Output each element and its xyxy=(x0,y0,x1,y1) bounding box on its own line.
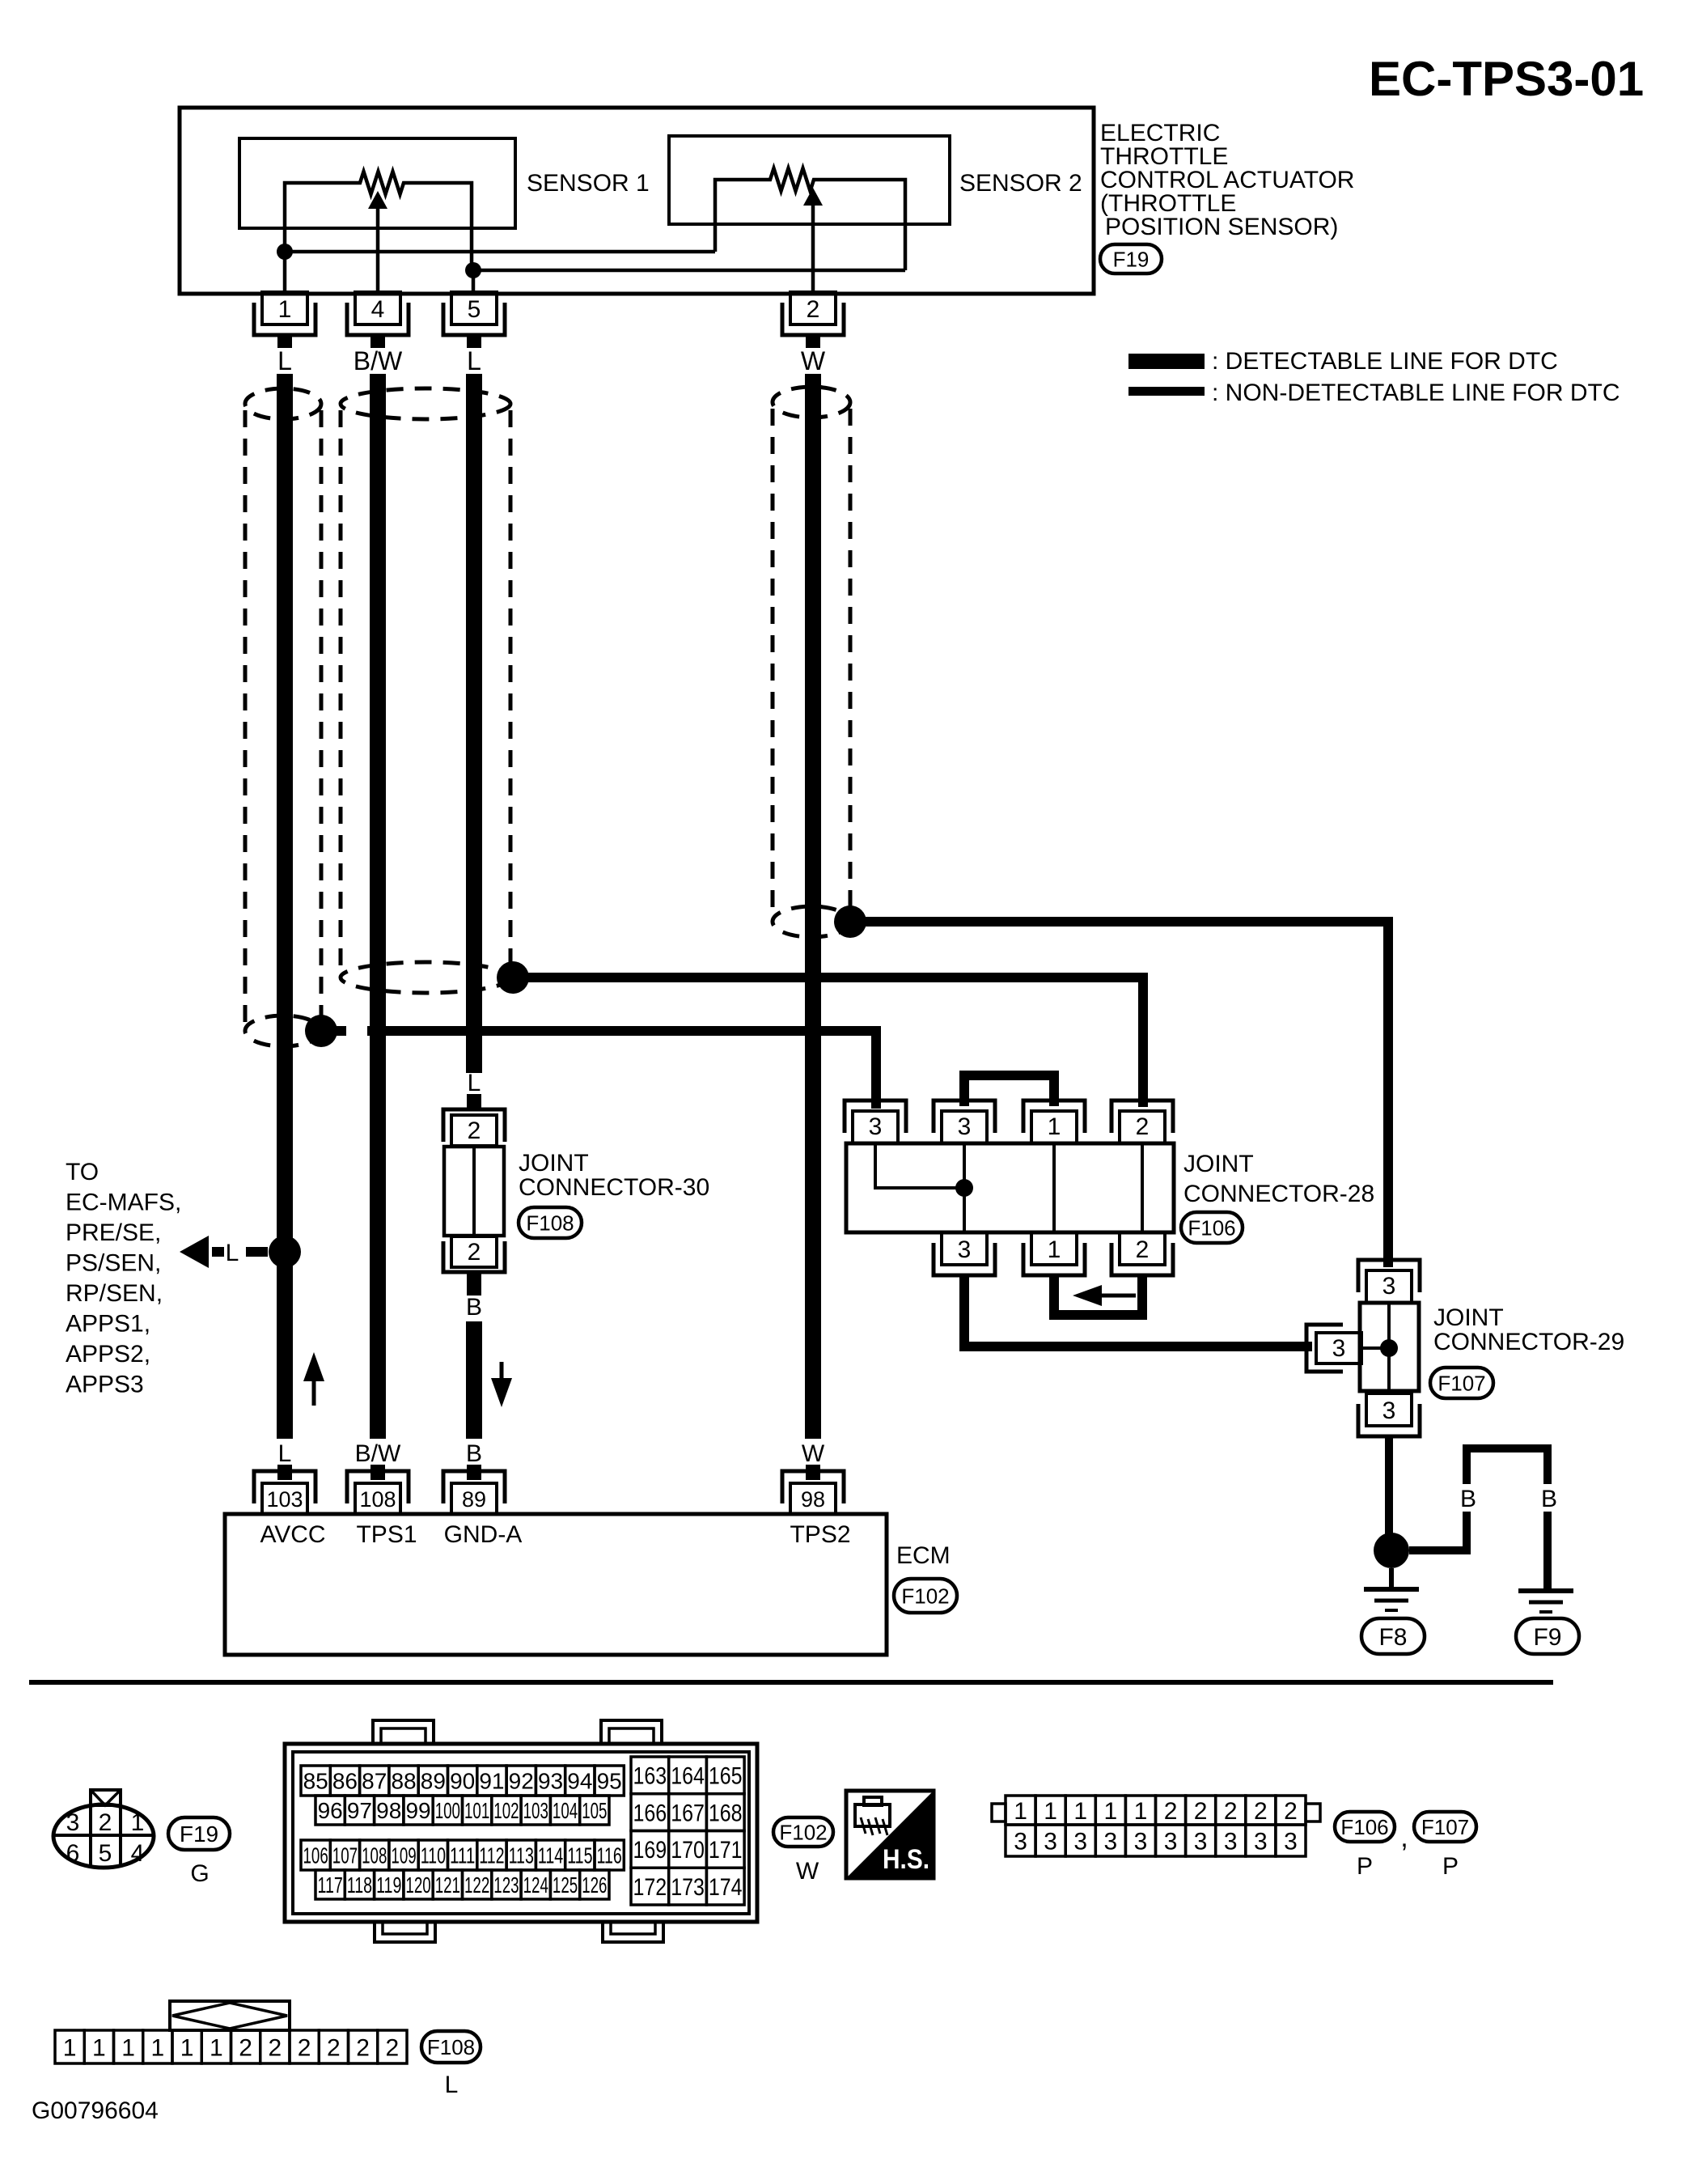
svg-text:2: 2 xyxy=(468,1239,481,1266)
svg-text:96: 96 xyxy=(318,1798,343,1823)
wire label L xyxy=(467,346,481,375)
svg-text:B: B xyxy=(466,1294,482,1321)
svg-text:121: 121 xyxy=(435,1872,460,1898)
svg-text:2: 2 xyxy=(1136,1113,1150,1140)
svg-text:89: 89 xyxy=(462,1487,486,1512)
legend detectable line xyxy=(1128,348,1558,375)
wire B from joint connector-30 to ECM 89 xyxy=(466,1321,482,1439)
svg-text:1: 1 xyxy=(92,2034,106,2061)
svg-text:2: 2 xyxy=(269,2034,282,2061)
svg-text:105: 105 xyxy=(582,1798,607,1823)
connector ref F108 bottom xyxy=(421,2031,481,2098)
svg-text:H.S.: H.S. xyxy=(883,1844,929,1875)
pin 4 xyxy=(347,292,409,348)
svg-text:P: P xyxy=(1442,1853,1459,1880)
svg-text:JOINT: JOINT xyxy=(1183,1151,1254,1177)
potentiometer sensor 1 xyxy=(285,172,472,292)
svg-text:171: 171 xyxy=(709,1837,743,1864)
svg-text:89: 89 xyxy=(421,1769,446,1794)
svg-text:123: 123 xyxy=(493,1872,519,1898)
svg-text:3: 3 xyxy=(1073,1828,1087,1855)
svg-text:F8: F8 xyxy=(1378,1624,1407,1651)
svg-text:122: 122 xyxy=(464,1872,489,1898)
svg-text:CONNECTOR-28: CONNECTOR-28 xyxy=(1183,1181,1374,1207)
connector face F108 strip xyxy=(55,2001,407,2063)
wire joint connector-29 to ground node xyxy=(1385,1436,1393,1534)
text joint connector-29 xyxy=(1433,1304,1624,1355)
svg-text:W: W xyxy=(796,1858,819,1885)
svg-text:94: 94 xyxy=(567,1769,592,1794)
svg-text:L: L xyxy=(468,1070,481,1096)
node AVCC branch junction xyxy=(269,1236,301,1268)
svg-text:: NON-DETECTABLE LINE FOR DTC: : NON-DETECTABLE LINE FOR DTC xyxy=(1212,380,1620,406)
connector face F102 right grid xyxy=(631,1757,744,1905)
svg-text:1: 1 xyxy=(1134,1798,1148,1825)
wire dashed branch to EC-MAFS xyxy=(180,1236,268,1268)
wire label W xyxy=(801,346,826,375)
svg-text:W: W xyxy=(802,1440,825,1467)
svg-text:124: 124 xyxy=(523,1872,548,1898)
svg-text:F108: F108 xyxy=(427,2035,475,2059)
svg-text:2: 2 xyxy=(1164,1798,1178,1825)
svg-text:3: 3 xyxy=(1382,1273,1396,1300)
wire shield2 to joint connector-29 xyxy=(850,917,1393,1267)
svg-text:103: 103 xyxy=(266,1487,303,1512)
svg-text:B: B xyxy=(1460,1486,1476,1512)
svg-text:EC-TPS3-01: EC-TPS3-01 xyxy=(1369,52,1644,106)
svg-text:168: 168 xyxy=(709,1800,743,1826)
svg-text:B/W: B/W xyxy=(354,346,403,375)
joint connector-28 internal wire and node xyxy=(875,1143,973,1197)
potentiometer sensor 2 xyxy=(715,168,905,292)
svg-text:1: 1 xyxy=(278,296,292,323)
svg-text:125: 125 xyxy=(553,1872,578,1898)
ECM pin 89 xyxy=(443,1465,505,1514)
svg-text:1: 1 xyxy=(1073,1798,1087,1825)
svg-text:2: 2 xyxy=(468,1117,481,1144)
connector ref F102 xyxy=(894,1579,957,1613)
svg-text:6: 6 xyxy=(66,1840,80,1867)
wire label L above ECM xyxy=(278,1440,292,1467)
svg-text:170: 170 xyxy=(671,1837,705,1864)
wire shield1 to joint connector-28 pin 3 xyxy=(321,1024,881,1109)
svg-text:93: 93 xyxy=(538,1769,563,1794)
svg-text:L: L xyxy=(277,346,292,375)
svg-text:92: 92 xyxy=(509,1769,534,1794)
svg-text:G00796604: G00796604 xyxy=(32,2097,159,2124)
legend non-detectable line xyxy=(1128,380,1620,406)
svg-text:1: 1 xyxy=(1044,1798,1057,1825)
svg-text:3: 3 xyxy=(1194,1828,1208,1855)
svg-text:2: 2 xyxy=(386,2034,400,2061)
connector ref F102 bottom xyxy=(773,1817,833,1885)
svg-text:110: 110 xyxy=(421,1843,446,1868)
joint connector-28 bottom pin 2 xyxy=(1111,1232,1173,1275)
ECM pin 98 xyxy=(782,1465,844,1514)
svg-text:106: 106 xyxy=(303,1843,328,1868)
joint connector-29 F107 body xyxy=(1360,1303,1419,1391)
svg-text:108: 108 xyxy=(359,1487,396,1512)
svg-text:JOINT: JOINT xyxy=(1433,1304,1504,1331)
svg-text:3: 3 xyxy=(958,1236,972,1263)
svg-text:4: 4 xyxy=(131,1840,145,1867)
text joint connector-30 xyxy=(519,1150,709,1201)
svg-text:1: 1 xyxy=(1048,1113,1061,1140)
svg-text:: DETECTABLE LINE FOR DTC: : DETECTABLE LINE FOR DTC xyxy=(1212,348,1558,375)
svg-text:L: L xyxy=(445,2072,459,2098)
pin 1 xyxy=(254,292,315,348)
svg-text:126: 126 xyxy=(582,1872,607,1898)
svg-text:167: 167 xyxy=(671,1800,705,1826)
node sensor1 pin1 junction xyxy=(277,244,715,294)
svg-text:3: 3 xyxy=(1254,1828,1268,1855)
svg-text:P: P xyxy=(1357,1853,1373,1880)
node shield wire1 junction xyxy=(305,1015,337,1047)
svg-text:112: 112 xyxy=(479,1843,504,1868)
svg-text:TPS2: TPS2 xyxy=(790,1521,850,1548)
separator line xyxy=(29,1680,1553,1685)
svg-text:2: 2 xyxy=(356,2034,370,2061)
svg-text:2: 2 xyxy=(1194,1798,1208,1825)
svg-text:97: 97 xyxy=(347,1798,372,1823)
node shield wire2 junction xyxy=(834,905,866,938)
joint connector-28 top pin 1 xyxy=(1023,1100,1085,1143)
wire W from pin 2 to ECM 98 xyxy=(805,374,821,1439)
label B left xyxy=(1460,1486,1476,1512)
wire label B/W xyxy=(354,346,403,375)
svg-text:91: 91 xyxy=(479,1769,504,1794)
svg-text:F19: F19 xyxy=(1113,247,1150,271)
svg-text:166: 166 xyxy=(633,1800,667,1826)
joint connector-28 top pin 3a xyxy=(845,1100,906,1143)
wire label B above ECM xyxy=(466,1440,482,1467)
connector ref F106 xyxy=(1335,1812,1395,1880)
ECM pin names xyxy=(260,1521,850,1548)
svg-text:98: 98 xyxy=(801,1487,825,1512)
svg-text:3: 3 xyxy=(1284,1828,1298,1855)
svg-text:1: 1 xyxy=(180,2034,194,2061)
svg-text:L: L xyxy=(278,1440,292,1467)
joint connector-28 top pin 3b xyxy=(934,1100,995,1143)
svg-text:F102: F102 xyxy=(901,1584,949,1608)
text joint connector-28 xyxy=(1183,1151,1374,1207)
node shield wires4-5 junction xyxy=(497,961,529,994)
svg-text:165: 165 xyxy=(709,1763,743,1790)
svg-text:3: 3 xyxy=(1104,1828,1118,1855)
svg-text:F9: F9 xyxy=(1533,1624,1561,1651)
wire B/W from pin 4 to ECM 108 xyxy=(370,374,386,1439)
connector ref F107 xyxy=(1414,1812,1476,1880)
connector ref F106 xyxy=(1181,1212,1243,1243)
svg-text:B/W: B/W xyxy=(355,1440,401,1467)
svg-text:86: 86 xyxy=(332,1769,358,1794)
svg-text:102: 102 xyxy=(493,1798,519,1823)
svg-text:,: , xyxy=(1400,1822,1408,1853)
joint connector-29 bottom pin 3 xyxy=(1358,1393,1420,1436)
svg-text:107: 107 xyxy=(332,1843,358,1868)
svg-text:115: 115 xyxy=(567,1843,592,1868)
svg-text:2: 2 xyxy=(298,2034,311,2061)
svg-text:1: 1 xyxy=(1014,1798,1027,1825)
svg-text:88: 88 xyxy=(391,1769,416,1794)
svg-text:3: 3 xyxy=(869,1113,883,1140)
svg-text:113: 113 xyxy=(509,1843,534,1868)
svg-text:JOINT: JOINT xyxy=(519,1150,589,1177)
wire shield45 to joint connector-28 pin 2 xyxy=(513,973,1148,1107)
ground F9 xyxy=(1516,1591,1579,1654)
svg-text:L: L xyxy=(226,1240,239,1266)
comma xyxy=(1400,1822,1408,1853)
svg-text:163: 163 xyxy=(633,1763,667,1790)
svg-text:109: 109 xyxy=(391,1843,416,1868)
node sensor1 pin5 junction xyxy=(465,261,905,292)
svg-text:104: 104 xyxy=(553,1798,578,1823)
pin 5 xyxy=(443,292,505,348)
wire ground node to B loop xyxy=(1409,1546,1471,1554)
ground node xyxy=(1374,1533,1409,1568)
svg-text:169: 169 xyxy=(633,1837,667,1864)
svg-text:108: 108 xyxy=(362,1843,387,1868)
ECM pin 103 xyxy=(254,1465,315,1514)
svg-text:101: 101 xyxy=(464,1798,489,1823)
svg-text:5: 5 xyxy=(468,296,481,323)
svg-text:2: 2 xyxy=(1254,1798,1268,1825)
connector ref F107 xyxy=(1430,1368,1493,1398)
svg-text:G: G xyxy=(190,1860,209,1887)
svg-text:120: 120 xyxy=(405,1872,430,1898)
svg-text:3: 3 xyxy=(1224,1828,1238,1855)
label B below joint connector-30 xyxy=(466,1294,482,1321)
svg-text:2: 2 xyxy=(1224,1798,1238,1825)
ECM box xyxy=(225,1514,887,1655)
svg-text:3: 3 xyxy=(1044,1828,1057,1855)
svg-text:SENSOR 2: SENSOR 2 xyxy=(959,170,1082,197)
pin 2 xyxy=(782,292,844,348)
joint connector-28 F106 body xyxy=(846,1143,1174,1232)
svg-text:164: 164 xyxy=(671,1763,705,1790)
svg-text:TPS1: TPS1 xyxy=(356,1521,417,1548)
svg-text:99: 99 xyxy=(405,1798,430,1823)
arrow down on wire B xyxy=(491,1362,512,1407)
shield cylinder wire 2 xyxy=(773,387,850,937)
svg-text:2: 2 xyxy=(807,296,820,323)
svg-text:1: 1 xyxy=(151,2034,165,2061)
svg-text:3: 3 xyxy=(958,1113,972,1140)
wire L from pin 1 to ECM 103 xyxy=(277,374,293,1439)
svg-text:F108: F108 xyxy=(526,1211,574,1235)
H.S. view icon xyxy=(846,1791,934,1878)
joint connector-28 bottom pin 3 xyxy=(934,1232,995,1275)
shield cylinder wire 1 xyxy=(245,388,321,1046)
electric throttle control actuator box F19 xyxy=(180,108,1094,294)
connector face F102 outer xyxy=(285,1720,757,1942)
joint connector-28 bottom pin 1 xyxy=(1023,1232,1085,1275)
svg-text:87: 87 xyxy=(362,1769,387,1794)
svg-text:174: 174 xyxy=(709,1874,743,1901)
svg-text:5: 5 xyxy=(99,1840,112,1867)
svg-text:F102: F102 xyxy=(779,1820,827,1844)
wire bridge bottom of joint connector-28 xyxy=(1049,1275,1147,1320)
svg-text:111: 111 xyxy=(450,1843,475,1868)
connector face F102 pin grid xyxy=(301,1766,624,1899)
svg-text:2: 2 xyxy=(1136,1236,1150,1263)
svg-text:95: 95 xyxy=(597,1769,622,1794)
title EC-TPS3-01 xyxy=(1369,52,1644,106)
arrow up on wire L xyxy=(303,1352,324,1406)
joint connector-29 left pin 3 xyxy=(1306,1325,1361,1372)
svg-text:2: 2 xyxy=(99,1809,112,1836)
wire L from pin 5 to joint connector-30 xyxy=(466,374,482,1073)
svg-text:1: 1 xyxy=(210,2034,223,2061)
svg-text:SENSOR 1: SENSOR 1 xyxy=(527,170,650,197)
ECM pin 108 xyxy=(347,1465,409,1514)
svg-text:114: 114 xyxy=(538,1843,563,1868)
sensor 2 box xyxy=(669,136,1082,224)
svg-text:1: 1 xyxy=(131,1809,145,1836)
svg-text:L: L xyxy=(467,346,481,375)
svg-text:F19: F19 xyxy=(180,1821,218,1847)
joint connector-29 top pin 3 xyxy=(1358,1260,1420,1303)
arrow in bottom bridge xyxy=(1073,1285,1136,1306)
svg-text:1: 1 xyxy=(1104,1798,1118,1825)
actuator label text xyxy=(1100,120,1354,240)
svg-text:W: W xyxy=(801,346,826,375)
wire bridge top of joint connector-28 xyxy=(959,1071,1059,1106)
connector ref F19 bottom xyxy=(168,1817,230,1887)
svg-text:90: 90 xyxy=(450,1769,475,1794)
svg-text:4: 4 xyxy=(371,296,385,323)
connector ref F108 xyxy=(519,1207,582,1238)
svg-text:B: B xyxy=(466,1440,482,1467)
svg-text:B: B xyxy=(1541,1486,1557,1512)
svg-text:GND-A: GND-A xyxy=(444,1521,523,1548)
wire label B/W above ECM xyxy=(355,1440,401,1467)
shield cylinder wires 4-5 xyxy=(341,388,510,993)
svg-text:1: 1 xyxy=(121,2034,135,2061)
label L above joint connector-30 xyxy=(468,1070,481,1096)
svg-text:103: 103 xyxy=(523,1798,548,1823)
svg-text:1: 1 xyxy=(63,2034,77,2061)
svg-text:ECM: ECM xyxy=(896,1542,951,1569)
svg-text:173: 173 xyxy=(671,1874,705,1901)
svg-text:F106: F106 xyxy=(1188,1215,1235,1240)
svg-text:3: 3 xyxy=(66,1809,80,1836)
svg-text:100: 100 xyxy=(435,1798,460,1823)
svg-text:1: 1 xyxy=(1048,1236,1061,1263)
connector ref F19 xyxy=(1100,244,1162,274)
svg-text:85: 85 xyxy=(303,1769,328,1794)
label B right xyxy=(1541,1486,1557,1512)
svg-text:3: 3 xyxy=(1382,1397,1396,1424)
svg-text:2: 2 xyxy=(327,2034,341,2061)
svg-text:AVCC: AVCC xyxy=(260,1521,325,1548)
wire joint connector-28 pin3 to joint connector-29 xyxy=(959,1275,1312,1351)
svg-text:3: 3 xyxy=(1134,1828,1148,1855)
svg-text:3: 3 xyxy=(1332,1335,1346,1362)
figure id G00796604 xyxy=(32,2097,159,2124)
text TO EC-MAFS list xyxy=(66,1159,181,1398)
svg-text:172: 172 xyxy=(633,1874,667,1901)
svg-text:2: 2 xyxy=(239,2034,252,2061)
svg-text:119: 119 xyxy=(376,1872,401,1898)
ground F8 xyxy=(1361,1568,1425,1654)
svg-text:F106: F106 xyxy=(1340,1815,1388,1839)
wire B loop xyxy=(1463,1444,1552,1589)
svg-text:F107: F107 xyxy=(1421,1815,1469,1839)
svg-text:CONNECTOR-29: CONNECTOR-29 xyxy=(1433,1329,1624,1355)
text ECM xyxy=(896,1542,951,1569)
sensor 1 box xyxy=(239,138,650,228)
svg-text:CONNECTOR-30: CONNECTOR-30 xyxy=(519,1174,709,1201)
svg-text:3: 3 xyxy=(1014,1828,1027,1855)
wire label W above ECM xyxy=(802,1440,825,1467)
svg-text:3: 3 xyxy=(1164,1828,1178,1855)
connector face F19 xyxy=(53,1790,154,1868)
svg-text:116: 116 xyxy=(597,1843,622,1868)
svg-text:98: 98 xyxy=(376,1798,401,1823)
wire label L xyxy=(277,346,292,375)
svg-text:2: 2 xyxy=(1284,1798,1298,1825)
joint connector-28 top pin 2 xyxy=(1111,1100,1173,1143)
connector face F106 F107 strip xyxy=(992,1796,1320,1856)
svg-text:117: 117 xyxy=(318,1872,343,1898)
svg-text:118: 118 xyxy=(347,1872,372,1898)
joint connector-30 F108 xyxy=(443,1094,505,1296)
svg-text:F107: F107 xyxy=(1438,1371,1485,1395)
